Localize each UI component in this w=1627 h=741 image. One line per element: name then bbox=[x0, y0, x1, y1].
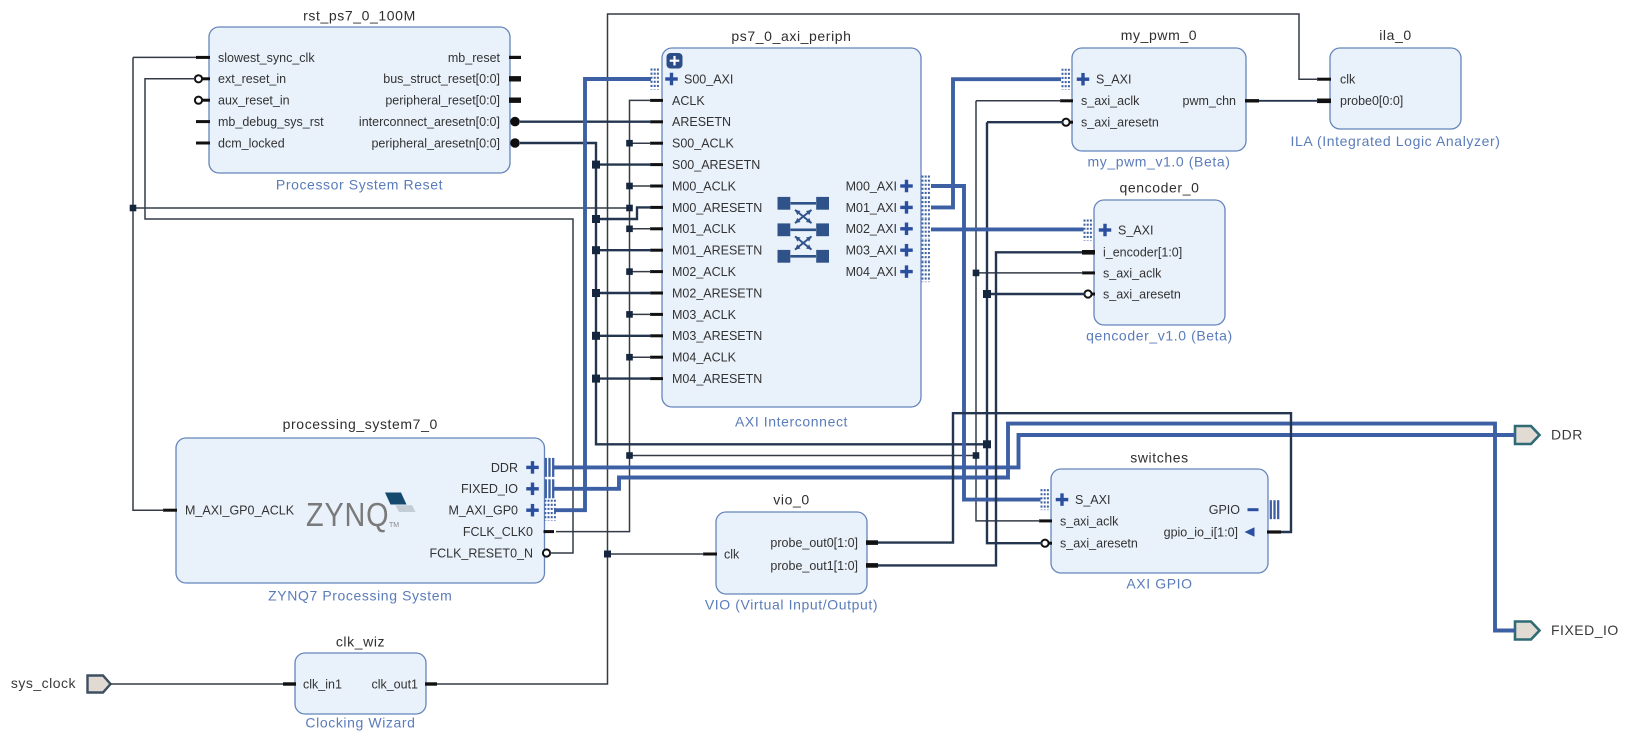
junction clk_out1 net at vio clk branch bbox=[604, 551, 611, 558]
svg-text:s_axi_aresetn: s_axi_aresetn bbox=[1103, 287, 1181, 301]
svg-text:probe0[0:0]: probe0[0:0] bbox=[1340, 94, 1403, 108]
svg-text:peripheral_reset[0:0]: peripheral_reset[0:0] bbox=[385, 94, 500, 108]
wire branch to qencoder s_axi_aresetn bbox=[987, 293, 1085, 295]
block clk_wiz (Clocking Wizard) bbox=[295, 653, 426, 714]
svg-text:VIO (Virtual Input/Output): VIO (Virtual Input/Output) bbox=[705, 597, 878, 613]
block ps7_0_axi_periph (AXI Interconnect) bbox=[662, 48, 921, 407]
svg-text:ila_0: ila_0 bbox=[1379, 27, 1412, 43]
svg-text:mb_reset: mb_reset bbox=[448, 51, 501, 65]
svg-text:qencoder_v1.0 (Beta): qencoder_v1.0 (Beta) bbox=[1086, 328, 1233, 344]
svg-text:clk_in1: clk_in1 bbox=[303, 677, 342, 691]
svg-text:GPIO: GPIO bbox=[1209, 503, 1241, 517]
wire FCLK_RESET0_N to ext_reset_in bbox=[145, 79, 573, 553]
wire branch to M04_ARESETN bbox=[596, 377, 651, 379]
block qencoder_0 bbox=[1094, 200, 1225, 325]
block processing_system7_0 (ZYNQ7 Processing System) bbox=[176, 438, 545, 583]
svg-text:mb_debug_sys_rst: mb_debug_sys_rst bbox=[218, 115, 324, 129]
svg-text:ps7_0_axi_periph: ps7_0_axi_periph bbox=[731, 28, 851, 44]
wire pwm_chn to probe0 bbox=[1259, 100, 1318, 102]
svg-text:FIXED_IO: FIXED_IO bbox=[1551, 622, 1619, 638]
bus FIXED_IO to port FIXED_IO bbox=[554, 424, 1515, 631]
svg-text:slowest_sync_clk: slowest_sync_clk bbox=[218, 51, 315, 65]
svg-text:qencoder_0: qencoder_0 bbox=[1120, 180, 1200, 196]
port FIXED_IO bbox=[1515, 622, 1540, 640]
svg-text:S_AXI: S_AXI bbox=[1096, 73, 1131, 87]
svg-text:AXI GPIO: AXI GPIO bbox=[1126, 576, 1192, 592]
svg-text:sys_clock: sys_clock bbox=[11, 675, 77, 691]
svg-text:rst_ps7_0_100M: rst_ps7_0_100M bbox=[303, 8, 416, 24]
wire branch to qencoder s_axi_aclk bbox=[976, 272, 1083, 274]
ZYNQ logo bbox=[306, 493, 416, 534]
bus M00_AXI to switches S_AXI bbox=[931, 186, 1041, 500]
svg-text:my_pwm_v1.0 (Beta): my_pwm_v1.0 (Beta) bbox=[1087, 154, 1230, 170]
svg-text:gpio_io_i[1:0]: gpio_io_i[1:0] bbox=[1164, 525, 1238, 539]
svg-text:s_axi_aclk: s_axi_aclk bbox=[1060, 514, 1119, 528]
svg-text:clk_out1: clk_out1 bbox=[371, 677, 418, 691]
svg-text:M00_ACLK: M00_ACLK bbox=[672, 179, 737, 193]
svg-text:M04_ARESETN: M04_ARESETN bbox=[672, 372, 762, 386]
wire branch to M01_ARESETN bbox=[596, 249, 651, 251]
wire probe_out0 to gpio_io_i bbox=[878, 413, 1291, 542]
svg-text:S_AXI: S_AXI bbox=[1118, 223, 1153, 237]
block ila_0 bbox=[1330, 48, 1461, 129]
svg-text:interconnect_aresetn[0:0]: interconnect_aresetn[0:0] bbox=[359, 115, 500, 129]
wire interconnect_aresetn[0:0] to ARESETN bbox=[520, 120, 651, 122]
svg-text:s_axi_aclk: s_axi_aclk bbox=[1103, 266, 1162, 280]
wire branch to M01_ACLK bbox=[630, 228, 652, 230]
svg-text:M02_AXI: M02_AXI bbox=[846, 222, 897, 236]
svg-text:FIXED_IO: FIXED_IO bbox=[461, 482, 518, 496]
svg-text:M_AXI_GP0_ACLK: M_AXI_GP0_ACLK bbox=[185, 504, 295, 518]
svg-text:FCLK_RESET0_N: FCLK_RESET0_N bbox=[429, 546, 533, 560]
pin S_AXI of my_pwm_0 bbox=[1077, 73, 1090, 86]
svg-text:TM: TM bbox=[389, 522, 399, 529]
wire branch to S00_ACLK bbox=[630, 142, 652, 144]
svg-text:ILA (Integrated Logic Analyzer: ILA (Integrated Logic Analyzer) bbox=[1290, 133, 1500, 149]
svg-text:M02_ACLK: M02_ACLK bbox=[672, 265, 737, 279]
svg-text:vio_0: vio_0 bbox=[773, 492, 809, 508]
bus M_AXI_GP0 to S00_AXI bbox=[554, 79, 651, 510]
svg-text:DDR: DDR bbox=[1551, 427, 1583, 443]
svg-text:probe_out0[1:0]: probe_out0[1:0] bbox=[770, 536, 858, 550]
svg-text:s_axi_aresetn: s_axi_aresetn bbox=[1081, 116, 1159, 130]
svg-text:clk: clk bbox=[1340, 73, 1356, 87]
wire branch to M04_ACLK bbox=[630, 356, 652, 358]
svg-text:probe_out1[1:0]: probe_out1[1:0] bbox=[770, 559, 858, 573]
svg-text:pwm_chn: pwm_chn bbox=[1183, 94, 1237, 108]
svg-text:s_axi_aresetn: s_axi_aresetn bbox=[1060, 537, 1138, 551]
wire branch to M00_ACLK bbox=[630, 185, 652, 187]
svg-text:switches: switches bbox=[1130, 450, 1188, 466]
block switches (AXI GPIO) bbox=[1051, 469, 1268, 573]
wire peripheral_aresetn[0:0] net trunk bbox=[520, 143, 987, 444]
svg-text:M_AXI_GP0: M_AXI_GP0 bbox=[449, 504, 519, 518]
svg-text:peripheral_aresetn[0:0]: peripheral_aresetn[0:0] bbox=[371, 136, 500, 150]
svg-text:M04_AXI: M04_AXI bbox=[846, 265, 897, 279]
svg-text:clk_wiz: clk_wiz bbox=[336, 634, 385, 650]
bus M02_AXI to qencoder S_AXI bbox=[931, 227, 1084, 231]
pin S00_AXI bbox=[665, 73, 678, 86]
svg-text:M03_AXI: M03_AXI bbox=[846, 244, 897, 258]
bus M01_AXI to my_pwm S_AXI bbox=[931, 79, 1061, 207]
wire branch clock to peripherals bbox=[630, 455, 977, 457]
port DDR bbox=[1515, 426, 1540, 444]
svg-text:M04_ACLK: M04_ACLK bbox=[672, 351, 737, 365]
junctions on FCLK_CLK0 net bbox=[626, 140, 633, 147]
svg-text:DDR: DDR bbox=[491, 461, 518, 475]
svg-text:my_pwm_0: my_pwm_0 bbox=[1121, 27, 1197, 43]
wire aresetn vertical to peripherals bbox=[987, 122, 1042, 543]
svg-text:M01_AXI: M01_AXI bbox=[846, 201, 897, 215]
svg-text:S00_AXI: S00_AXI bbox=[684, 72, 733, 86]
svg-text:ZYNQ: ZYNQ bbox=[306, 496, 389, 534]
crossbar switch icon bbox=[778, 197, 830, 263]
svg-text:ARESETN: ARESETN bbox=[672, 115, 731, 129]
svg-text:M03_ARESETN: M03_ARESETN bbox=[672, 329, 762, 343]
svg-text:S00_ACLK: S00_ACLK bbox=[672, 137, 735, 151]
wire branch clk_out1 to vio_0 clk bbox=[608, 553, 705, 555]
svg-text:clk: clk bbox=[724, 547, 740, 561]
svg-text:aux_reset_in: aux_reset_in bbox=[218, 94, 290, 108]
svg-text:M00_AXI: M00_AXI bbox=[846, 179, 897, 193]
svg-text:M01_ACLK: M01_ACLK bbox=[672, 222, 737, 236]
svg-text:S_AXI: S_AXI bbox=[1075, 493, 1110, 507]
port sys_clock bbox=[88, 676, 111, 693]
svg-text:M00_ARESETN: M00_ARESETN bbox=[672, 201, 762, 215]
svg-text:M03_ACLK: M03_ACLK bbox=[672, 308, 737, 322]
svg-text:ZYNQ7 Processing System: ZYNQ7 Processing System bbox=[268, 588, 452, 604]
wire branch to M02_ACLK bbox=[630, 271, 652, 273]
wire branch to S00_ARESETN bbox=[596, 163, 651, 165]
svg-text:processing_system7_0: processing_system7_0 bbox=[283, 416, 438, 432]
junctions on peripheral_aresetn net bbox=[592, 161, 600, 169]
wire branch to M00_ARESETN (jog) bbox=[596, 207, 651, 219]
wire clk_out1 net (to vio_0 clk and ila_0 clk) bbox=[437, 14, 1318, 684]
wire branch to M03_ACLK bbox=[630, 313, 652, 315]
svg-text:i_encoder[1:0]: i_encoder[1:0] bbox=[1103, 246, 1182, 260]
pin S_AXI of qencoder_0 bbox=[1099, 224, 1112, 237]
svg-text:S00_ARESETN: S00_ARESETN bbox=[672, 158, 760, 172]
svg-text:AXI Interconnect: AXI Interconnect bbox=[735, 414, 848, 430]
svg-text:ACLK: ACLK bbox=[672, 94, 705, 108]
block vio_0 (VIO) bbox=[716, 512, 867, 594]
wire branch to M02_ARESETN bbox=[596, 292, 651, 294]
wire branch clock to slowest_sync_clk and M_AXI_GP0_ACLK bbox=[133, 207, 630, 209]
bus DDR to port DDR bbox=[554, 435, 1515, 467]
wire FCLK_CLK0 clock net trunk bbox=[556, 100, 651, 531]
pin S_AXI of switches bbox=[1056, 493, 1069, 506]
svg-text:bus_struct_reset[0:0]: bus_struct_reset[0:0] bbox=[383, 72, 500, 86]
svg-text:Clocking Wizard: Clocking Wizard bbox=[305, 715, 415, 731]
wire sys_clock to clk_in1 bbox=[110, 683, 283, 685]
svg-text:M02_ARESETN: M02_ARESETN bbox=[672, 286, 762, 300]
svg-text:FCLK_CLK0: FCLK_CLK0 bbox=[463, 525, 533, 539]
svg-text:M01_ARESETN: M01_ARESETN bbox=[672, 244, 762, 258]
wire probe_out1 to i_encoder bbox=[878, 252, 1082, 565]
svg-text:dcm_locked: dcm_locked bbox=[218, 136, 285, 150]
block rst_ps7_0_100M (Processor System Reset) bbox=[209, 27, 510, 173]
expand icon of ps7_0_axi_periph bbox=[667, 53, 683, 69]
svg-text:Processor System Reset: Processor System Reset bbox=[276, 177, 443, 193]
svg-text:s_axi_aclk: s_axi_aclk bbox=[1081, 94, 1140, 108]
svg-text:ext_reset_in: ext_reset_in bbox=[218, 72, 286, 86]
block my_pwm_0 bbox=[1072, 48, 1246, 151]
wire branch to M03_ARESETN bbox=[596, 335, 651, 337]
